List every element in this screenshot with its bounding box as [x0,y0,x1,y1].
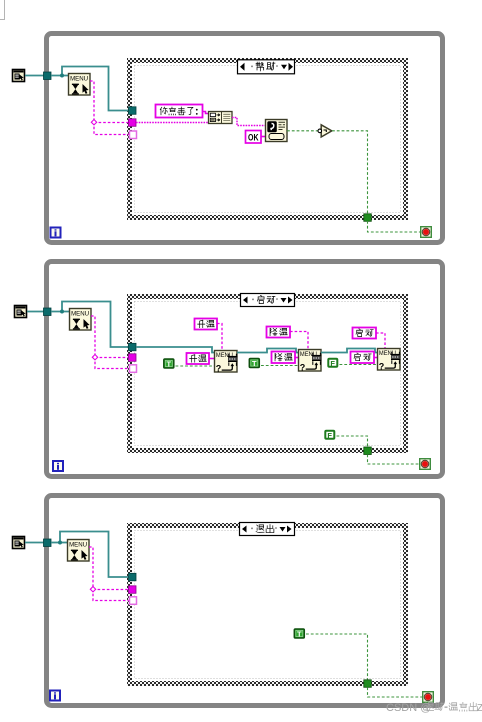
magenta wire junction2 to tunnel [95,357,129,359]
case structure 2 border (checkered) [130,297,406,451]
while loop 1 border [47,34,443,243]
tunnel case3 lower (hollow) [130,597,137,605]
magenta wire junction3 to tunnel [93,589,129,591]
tunnel case2 refnum (teal) [129,343,137,351]
magenta junction diamond 3 [90,587,95,592]
case 3 selector label "退出" [240,523,295,536]
wire constant to concat top input [203,112,210,114]
tunnel on while border 1 (refnum) [44,72,52,80]
junction node 3 [58,541,62,545]
Get Menu Selection block 1 [69,74,91,96]
tunnel case2 lower (hollow) [130,365,137,373]
Get Menu Selection block 3 [68,540,90,562]
tunnel case3 refnum (teal) [129,573,137,581]
boolean wire tunnel to stop terminal 3 [368,687,423,697]
magenta wire top A to block A [217,324,222,351]
teal wire block A to block B [237,349,298,353]
magenta wire down to lower tunnel 3 [93,589,130,601]
menu item block C [378,349,401,372]
magenta wire left C to block C [374,357,377,359]
boolean wire F to block C [340,364,378,366]
menu refnum constant 1 [13,70,25,82]
boolean wire dialog to Not gate [287,130,318,132]
case 2 selector label "启动" [241,294,295,307]
boolean wire T A to block A [176,365,215,367]
boolean wire Not gate to tunnel [332,131,368,214]
wire tunnel to junction and MENU block 3 [51,542,67,544]
string constant 升温 top A [195,319,218,330]
wire branch up and into case 3 [60,532,130,578]
tunnel case3 bottom (boolean out) [364,680,372,688]
menu item block B [299,350,322,373]
teal wire tunnel to menu item block A [136,347,214,353]
boolean wire tunnel to stop terminal 2 [368,455,420,465]
wire branch up and into case 2 [62,302,130,348]
boolean wire T B to block B [261,365,298,367]
boolean constant T A [164,359,174,368]
wire branch up and into case 1 [62,67,129,111]
string constant 升温 left A [187,353,210,364]
magenta wire down to lower tunnel [94,122,130,135]
boolean wire tunnel to stop terminal 1 [368,221,421,232]
menu refnum constant 3 [13,537,25,549]
iteration terminal i 3 [50,691,60,701]
magenta wire from MENU1 down [90,81,94,122]
magenta wire from MENU2 down [91,316,95,357]
tunnel on while border 2 (refnum) [44,308,52,316]
tunnel on while border 3 (refnum) [44,539,52,547]
menu refnum constant 2 [15,306,27,318]
concatenate strings block [209,112,233,124]
string wire inside case1 from tunnel to concat [136,122,208,124]
wire tunnel to junction and MENU block 2 [51,311,69,313]
tunnel case3 item tag (magenta) [129,586,137,594]
magenta wire top B to block B [290,332,308,350]
tunnel case1 bottom (boolean out) [364,214,372,222]
magenta junction diamond 2 [92,355,97,360]
wire refnum2 to tunnel [27,311,46,313]
tunnel case1 item tag (magenta) [129,119,137,127]
string wire concat to dialog [232,118,265,126]
boolean constant F B-C [328,359,337,368]
svg-text:“: “ [252,299,254,305]
string constant 降温 top B [267,327,291,338]
menu item block A [215,351,238,374]
tunnel case1 refnum (teal) [129,107,137,115]
junction node 2 [60,310,64,314]
tunnel case2 item tag (magenta) [129,354,137,362]
svg-text:“: “ [251,528,253,534]
junction node [60,74,64,78]
stop button terminal 1 [421,227,432,238]
magenta wire down to lower tunnel 2 [95,357,130,369]
magenta wire top C to block C [376,333,385,348]
svg-text:”: ” [276,299,278,305]
string constant 你点击了： [156,105,203,118]
magenta junction diamond [91,120,96,125]
one button dialog block [266,120,288,142]
string constant OK [246,131,262,144]
string constant 启动 top C [353,328,377,339]
magenta wire junction to tunnel (item tag) [94,122,129,124]
wire OK to dialog [261,136,265,138]
wire refnum3 to tunnel [25,542,46,544]
stop button terminal 2 [420,459,431,470]
boolean constant F stop 2 [325,431,334,440]
magenta wire from MENU3 down [89,547,93,589]
svg-text:Z: Z [477,703,482,714]
svg-text:CSDN @: CSDN @ [386,702,431,714]
teal wire block B to block C [321,349,377,353]
stop button terminal 3 [423,692,434,703]
wire refnum1 to tunnel [25,75,46,77]
svg-text:”: ” [275,528,277,534]
watermark CSDN [386,702,482,714]
case structure 1 border (checkered) [130,61,406,218]
string constant 降温 left B [272,352,296,364]
Not gate [318,125,332,137]
while loop 3 border [47,496,443,706]
magenta wire left B to block B [295,357,298,359]
Get Menu Selection block 2 [70,309,92,331]
wire tunnel to junction and MENU block [51,75,68,77]
while loop 2 border [47,262,443,477]
boolean constant T B [249,359,259,368]
string constant 启动 left C [351,352,375,364]
case 1 selector label "帮助" [238,60,295,74]
boolean wire F to tunnel 2 [337,436,368,447]
boolean wire T to tunnel 3 [306,634,368,680]
tunnel case2 bottom (boolean out) [364,447,372,455]
iteration terminal i 1 [51,228,61,238]
decorative corner lines top-left [0,0,5,20]
boolean constant T stop 3 [294,629,304,638]
iteration terminal i 2 [53,461,63,471]
svg-text:“: “ [251,66,253,72]
svg-text:”: ” [276,66,278,72]
tunnel case1 lower (hollow) [130,131,137,139]
case structure 3 border (checkered) [130,526,406,684]
magenta wire left A to block A [209,358,214,360]
svg-text:OK: OK [248,133,259,143]
